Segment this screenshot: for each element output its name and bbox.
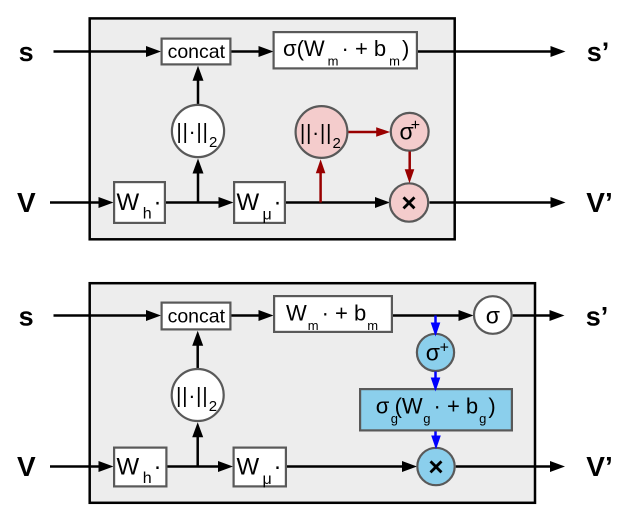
wire V input — [50, 201, 100, 204]
pink sigma-plus circle — [391, 113, 429, 151]
svg-text:·: · — [154, 189, 162, 216]
svg-text:W: W — [117, 454, 140, 481]
wire times node to V-prime output — [430, 201, 552, 204]
blue times circle (bottom) — [417, 448, 454, 485]
pink norm L2 circle — [296, 106, 348, 158]
Wmu box (top) — [234, 182, 285, 223]
wire blue junction down to sigma-plus (bottom) — [434, 316, 437, 324]
wire blue sigma-plus to gate box (bottom) — [434, 372, 437, 379]
Wmu box (bottom) — [234, 448, 286, 487]
svg-text:V’: V’ — [586, 451, 612, 482]
svg-text:W: W — [117, 189, 140, 216]
wire Wh to Wmu (bottom) — [168, 465, 220, 468]
wire red sigma-plus down to times — [408, 152, 411, 171]
wire blue gate box to times (bottom) — [434, 432, 437, 437]
svg-text:+: + — [440, 340, 449, 357]
svg-text:×: × — [401, 188, 416, 218]
wire concat to sigma box — [232, 50, 261, 53]
gate box sigma_g(Wg . + bg) (bottom) — [360, 389, 512, 430]
svg-text:W: W — [237, 189, 260, 216]
wire V junction up to norm circle — [197, 172, 200, 203]
svg-text:V’: V’ — [586, 187, 612, 218]
svg-text:μ: μ — [263, 207, 272, 224]
svg-text:·: · — [154, 454, 162, 481]
wire sigma box to s-prime output — [418, 50, 551, 53]
wire norm circle to concat — [197, 79, 200, 105]
svg-text:s’: s’ — [587, 37, 610, 67]
wire times node to V-prime (bottom) — [456, 465, 550, 468]
svg-text:s: s — [19, 302, 34, 332]
wire sigma circle to s-prime (bottom) — [513, 314, 550, 317]
wire Wh to Wmu — [166, 201, 220, 204]
svg-text:+: + — [411, 117, 420, 134]
Wh box (top) — [114, 182, 165, 223]
wire red junction up to pink norm circle — [319, 173, 322, 203]
bottom diagram enclosure box — [90, 283, 535, 503]
svg-text:s: s — [19, 37, 34, 67]
svg-text:h: h — [143, 470, 152, 487]
wire Wm box to sigma circle (bottom) — [393, 314, 460, 317]
svg-text:σ: σ — [426, 340, 440, 366]
wire red pink norm to sigma-plus — [349, 131, 378, 134]
wire concat to Wm box (bottom) — [232, 314, 261, 317]
svg-text:||·||: ||·|| — [176, 120, 208, 143]
Wm . + bm box (bottom) — [274, 296, 392, 332]
wire s input (bottom) — [54, 314, 148, 317]
concat box (top) — [162, 39, 231, 65]
svg-text:2: 2 — [209, 134, 217, 151]
norm L2 circle (top, white) — [172, 105, 224, 157]
blue sigma-plus circle (bottom) — [417, 334, 454, 371]
wire Wmu to times node — [286, 201, 376, 204]
wire Wmu to times node (bottom) — [287, 465, 403, 468]
svg-text:·: · — [274, 454, 282, 481]
svg-text:2: 2 — [209, 398, 217, 415]
svg-text:2: 2 — [333, 135, 341, 152]
wire V junction up to norm circle (bottom) — [196, 436, 199, 467]
sigma circle (bottom, white) — [474, 296, 512, 334]
svg-text:σ: σ — [486, 303, 500, 329]
norm L2 circle (bottom, white) — [172, 369, 224, 421]
top diagram enclosure box — [90, 18, 455, 239]
concat box (bottom) — [162, 303, 231, 330]
svg-text:s’: s’ — [586, 302, 609, 332]
wire s input — [54, 50, 148, 53]
Wh box (bottom) — [114, 448, 166, 487]
wire norm circle to concat (bottom) — [196, 344, 199, 369]
wire V input (bottom) — [50, 465, 100, 468]
svg-text:W: W — [237, 454, 260, 481]
svg-text:concat: concat — [168, 305, 226, 327]
svg-text:||·||: ||·|| — [300, 121, 332, 144]
svg-text:h: h — [143, 206, 152, 223]
svg-text:·: · — [274, 189, 282, 216]
svg-text:μ: μ — [263, 471, 272, 488]
svg-text:concat: concat — [168, 41, 226, 63]
svg-text:×: × — [428, 452, 443, 482]
svg-text:V: V — [17, 187, 36, 218]
pink times circle — [390, 183, 428, 221]
sigma(Wm . + bm) box (top) — [274, 32, 417, 68]
svg-text:||·||: ||·|| — [176, 384, 208, 407]
svg-text:V: V — [17, 451, 36, 482]
